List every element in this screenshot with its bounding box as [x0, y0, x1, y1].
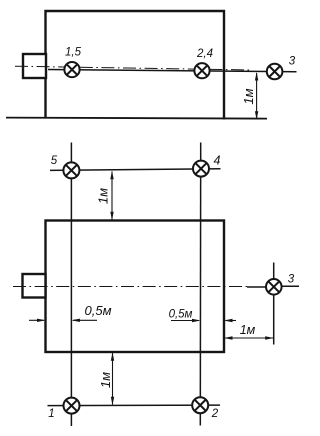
- dimension 0,5м (right): [171, 319, 236, 322]
- transformer tank outline (side view): [46, 11, 225, 120]
- wire: vertical line through points 5 and 1: [70, 143, 72, 427]
- svg-text:1м: 1м: [241, 88, 256, 104]
- measurement point 4: [193, 161, 209, 177]
- svg-text:0,5м: 0,5м: [85, 303, 112, 318]
- measurement point 1,5 (microphone symbol): [64, 62, 79, 77]
- measurement point 2: [192, 397, 208, 413]
- wire: vertical line through point 3: [273, 263, 275, 345]
- svg-text:4: 4: [214, 154, 221, 168]
- wire: measurement line through points 1,5 - 2,4 - 3: [48, 70, 297, 72]
- wire: vertical line through points 4 and 2: [199, 143, 201, 426]
- measurement point 2,4: [194, 63, 209, 78]
- dimension 1м (top, between line 5-4 and tank): [110, 171, 113, 221]
- dimension 1м (bottom, between tank and line 1-2): [111, 352, 114, 405]
- svg-text:1м: 1м: [96, 188, 111, 204]
- svg-text:1,5: 1,5: [65, 47, 82, 59]
- svg-text:1м: 1м: [240, 323, 256, 337]
- axis centerline (dash-dot): [15, 66, 251, 70]
- measurement point 5: [63, 162, 79, 178]
- wire: horizontal leads of point 3: [247, 286, 266, 288]
- svg-text:0,5м: 0,5м: [169, 309, 193, 321]
- svg-text:2,4: 2,4: [196, 48, 213, 60]
- svg-text:3: 3: [288, 274, 295, 286]
- ground line: [6, 118, 267, 119]
- axis centerline (plan, dash-dot): [13, 286, 247, 288]
- bushing (plan view): [23, 274, 46, 298]
- measurement point 3 (plan view): [266, 279, 282, 295]
- measurement point 3 (top figure): [267, 64, 283, 80]
- dimension 0,5м (left): [29, 319, 97, 322]
- svg-text:1м: 1м: [98, 372, 113, 388]
- bushing (side view): [23, 54, 46, 78]
- wire: line through points 1 and 2: [48, 404, 221, 407]
- measurement point 1: [64, 398, 80, 414]
- svg-text:5: 5: [51, 155, 58, 167]
- transformer tank outline (plan view): [46, 221, 225, 353]
- svg-text:3: 3: [289, 56, 296, 68]
- svg-text:2: 2: [211, 408, 219, 420]
- svg-text:1: 1: [48, 408, 54, 420]
- dimension 1м (height of axis above floor): [255, 72, 258, 120]
- wire: line through points 5 and 4: [50, 169, 221, 171]
- dimension 1м (right, between tank and point 3): [224, 336, 274, 339]
